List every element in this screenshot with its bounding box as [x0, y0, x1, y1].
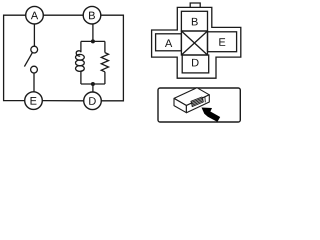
- wire junction to D: [92, 84, 94, 92]
- node B: [83, 6, 101, 24]
- relay nose slot line 1: [192, 99, 203, 104]
- resistor R1: [101, 53, 108, 72]
- relay body front face: [186, 95, 209, 113]
- wire right branch bottom: [104, 72, 106, 84]
- node E: [25, 92, 43, 110]
- inductor L1: [76, 51, 81, 56]
- wire switch to E: [33, 73, 35, 92]
- connector J1 cavity D: [182, 55, 209, 73]
- wire right branch top: [104, 41, 106, 52]
- connector J1 cavity E: [208, 32, 237, 52]
- pin D label: [192, 59, 199, 67]
- switch S1 terminal bottom: [31, 66, 38, 73]
- switch S1 lever: [24, 53, 32, 67]
- wire B down to junction: [92, 24, 94, 41]
- pin A label: [165, 39, 172, 47]
- wire left branch top: [80, 41, 82, 52]
- pin B label: [192, 18, 198, 26]
- wire bottom rail of parallel branch: [81, 83, 105, 85]
- junction top: [91, 39, 95, 43]
- relay nose right end: [204, 97, 206, 103]
- relay connector nose top strip: [191, 97, 203, 103]
- connector J1 cavity A: [156, 34, 182, 51]
- node A: [26, 6, 44, 24]
- connector J1 key cross line 2: [181, 31, 207, 55]
- switch S1 terminal top: [31, 46, 38, 53]
- relay body top face: [174, 88, 209, 106]
- wire A to switch: [33, 24, 35, 46]
- connector J1 locking tab: [190, 3, 200, 7]
- connector J1 cavity B: [181, 11, 207, 31]
- node D: [84, 92, 102, 110]
- relay body left face: [174, 98, 186, 112]
- junction bottom: [91, 82, 95, 86]
- wire A to left rail to E: [4, 15, 26, 100]
- pin E label: [219, 38, 225, 46]
- node B label: [89, 12, 95, 20]
- node A label: [31, 12, 38, 20]
- wire E to D: [42, 100, 83, 102]
- node E label: [31, 97, 37, 105]
- relay icon frame: [158, 88, 240, 122]
- connector J1 center key square: [181, 31, 207, 55]
- connector J1 key cross line 1: [181, 31, 207, 55]
- wire A to B: [43, 14, 83, 16]
- arrow pointer: [202, 108, 221, 122]
- connector J1 outer housing: [152, 7, 241, 78]
- wire left branch bottom: [81, 70, 84, 85]
- relay connector nose front face: [192, 98, 204, 107]
- node D label: [89, 97, 96, 105]
- wire top rail of parallel branch: [81, 40, 105, 42]
- wire B to right rail to D: [101, 15, 124, 101]
- relay nose slot line 2: [192, 101, 203, 106]
